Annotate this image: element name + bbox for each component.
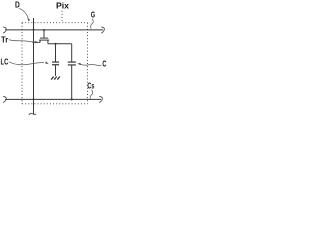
source leg (39, 40, 41, 42)
gate line G (5, 29, 103, 31)
leader from Pix (dotted) (61, 11, 63, 21)
leader from C with arrowhead (77, 63, 101, 66)
break symbol right end of gate line (101, 27, 104, 33)
data line D (33, 18, 35, 114)
junction dot source on D (32, 41, 34, 43)
junction dot C on storage line (71, 98, 73, 100)
break symbol right end of storage line (99, 96, 102, 102)
wire pixel node down to capacitor LC (55, 44, 57, 62)
svg-text:G: G (91, 10, 95, 19)
storage/common line Cs (5, 98, 101, 100)
svg-text:Tr: Tr (1, 35, 8, 44)
junction dot D x G (33, 29, 35, 31)
junction dot pixel node (54, 43, 56, 45)
channel bar (39, 39, 49, 41)
source wire to data line (34, 41, 41, 43)
capacitor C (68, 62, 76, 65)
drain wire to pixel node (48, 43, 72, 45)
drain leg (47, 40, 49, 44)
break symbol left end of gate line (3, 27, 6, 33)
break symbol bottom end of data line (29, 113, 36, 115)
leader from Tr with arrowhead (9, 40, 39, 44)
ground (chassis) (51, 77, 60, 80)
svg-text:Pix: Pix (56, 1, 69, 10)
capacitor LC (52, 62, 59, 65)
leader from D with arrowhead (19, 8, 30, 21)
svg-text:LC: LC (1, 57, 9, 66)
gate stub wire (43, 30, 45, 38)
leader from G (91, 19, 94, 29)
leader from Cs (90, 90, 93, 99)
gate bar (40, 37, 48, 39)
junction dot gate stub on G (43, 29, 45, 31)
svg-text:Cs: Cs (87, 81, 94, 90)
wire C down to storage line (71, 65, 73, 99)
transistor Tr (34, 30, 50, 44)
wire LC to ground (55, 65, 57, 76)
dashed pixel boundary box Pix (22, 23, 88, 104)
break symbol left end of storage line (3, 96, 6, 102)
junction dot D x storage line (33, 98, 35, 100)
wire pixel node right to capacitor C (71, 44, 73, 62)
svg-text:C: C (102, 60, 106, 69)
leader from LC with arrowhead (9, 61, 49, 64)
